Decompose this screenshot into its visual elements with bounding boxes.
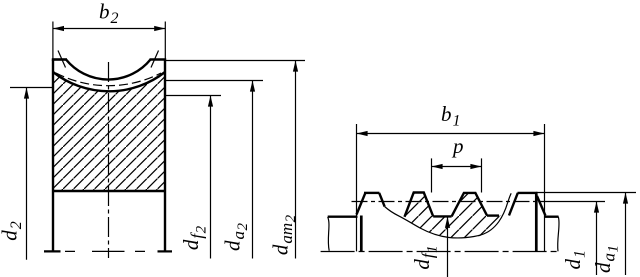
label df2 xyxy=(179,225,210,250)
wheel bottom tick right xyxy=(158,250,173,252)
da1 dimension line xyxy=(625,193,627,276)
inner root arc xyxy=(53,72,165,91)
da1 extension line xyxy=(536,192,636,194)
df2 dimension line xyxy=(210,96,212,259)
root flat B-C xyxy=(487,214,499,216)
right corner slash xyxy=(151,51,159,68)
right chamfer xyxy=(537,196,545,216)
left break line xyxy=(328,217,330,251)
crest C left flank xyxy=(509,193,518,216)
df1 dimension line xyxy=(447,217,449,277)
left chamfer xyxy=(357,193,366,215)
b2 right extension line xyxy=(164,22,166,60)
tooth A xyxy=(405,193,434,217)
d2 extension line xyxy=(10,87,53,89)
label da1 xyxy=(591,245,622,273)
crest 1 right flank (partial) xyxy=(379,193,384,207)
b1 right extension line xyxy=(544,124,546,251)
label dam2 xyxy=(269,214,300,255)
d1 extension line xyxy=(540,201,605,203)
worm axis centerline xyxy=(321,251,558,253)
left thread end face xyxy=(360,216,363,252)
dam2 dimension line xyxy=(295,61,297,259)
worm cutout hatching xyxy=(400,188,515,246)
left shaft top edge xyxy=(328,215,358,217)
root flat A-B xyxy=(433,215,451,217)
right shaft top edge xyxy=(545,215,559,217)
wheel hatching xyxy=(50,60,170,195)
right break line xyxy=(558,217,559,252)
b2 left extension line xyxy=(52,22,54,60)
label d1 xyxy=(561,250,589,270)
left corner slash xyxy=(58,51,66,68)
crest C xyxy=(518,192,538,194)
dashed pitch arc xyxy=(56,73,161,86)
wheel bottom tick left xyxy=(44,250,61,252)
p dimension line xyxy=(432,166,482,168)
wheel bottom axis dashes xyxy=(65,250,145,252)
b1 dimension line xyxy=(357,133,545,135)
d1 dimension line xyxy=(596,202,598,276)
right thread end face xyxy=(535,194,538,252)
wheel left edge xyxy=(52,60,54,252)
rim bottom line xyxy=(53,190,165,192)
da2 dimension line xyxy=(252,81,254,259)
outer throat arc xyxy=(66,60,151,80)
d2 dimension line xyxy=(26,88,28,260)
label df1 xyxy=(410,245,441,269)
wheel right edge xyxy=(164,60,166,252)
df2 extension line xyxy=(166,95,221,97)
label d2 xyxy=(0,221,25,241)
rim top right xyxy=(150,58,167,61)
freehand cutout boundary xyxy=(385,193,512,238)
rim top left xyxy=(52,58,67,61)
p left extension line xyxy=(431,158,433,192)
wheel vertical centerline xyxy=(108,62,110,258)
p right extension line xyxy=(481,158,483,192)
b2 dimension line xyxy=(53,28,165,30)
label da2 xyxy=(221,223,252,252)
b1 left extension line xyxy=(356,124,358,251)
tooth B xyxy=(452,193,487,217)
dam2 extension line xyxy=(166,60,305,62)
worm pitch line xyxy=(352,201,539,203)
da2 extension line xyxy=(166,80,263,82)
crest 1 xyxy=(364,192,379,194)
svg-text:p: p xyxy=(451,134,464,158)
